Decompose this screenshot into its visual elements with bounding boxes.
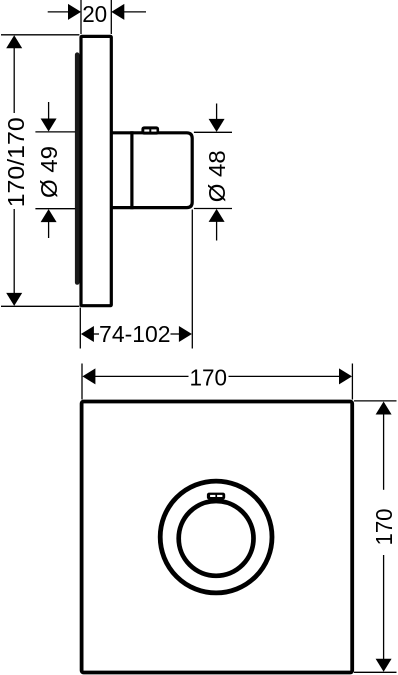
escutcheon plate (side view) [81, 36, 111, 305]
dimension diameter 48 extension lines [194, 131, 232, 133]
svg-text:Ø 48: Ø 48 [204, 150, 230, 202]
dimension 170/170 line and arrows [6, 35, 22, 48]
safety button (side view) [141, 126, 159, 134]
dimension 170 top line and arrows [82, 368, 95, 384]
handle inner circle (front view) [179, 501, 254, 576]
handle body (side view) [111, 133, 192, 208]
dimension 170/170 extension lines [1, 34, 79, 36]
dimension diameter 48 arrows [216, 104, 218, 120]
svg-text:170/170: 170/170 [3, 117, 29, 207]
safety button (front view) [207, 493, 225, 500]
square escutcheon plate (front view) [82, 402, 353, 673]
handle outer circle (front view) [160, 481, 272, 593]
svg-text:170: 170 [371, 509, 397, 546]
svg-text:Ø 49: Ø 49 [36, 146, 62, 198]
handle collar divider line (side view) [130, 131, 133, 209]
dimension 170 right (front view) extension lines [354, 400, 397, 402]
dimension 170 top (front view) extension lines [81, 364, 83, 400]
dimension diameter 49 arrows [48, 102, 50, 119]
dimension 20 right leader and arrow [124, 11, 146, 13]
svg-text:170: 170 [190, 364, 228, 390]
svg-text:74-102: 74-102 [99, 321, 171, 347]
dimension 20 (plate thickness) extension lines [80, 0, 82, 34]
dimension 74-102 line and arrows [81, 326, 94, 342]
dimension diameter 49 ticks [35, 131, 75, 133]
dimension 170 right line and arrows [376, 402, 392, 415]
svg-text:20: 20 [82, 1, 107, 27]
dimension 20 left leader and arrow [48, 11, 69, 13]
dimension 74-102 extension lines [79, 308, 81, 349]
flange (rosette edge, side view) [75, 52, 80, 284]
